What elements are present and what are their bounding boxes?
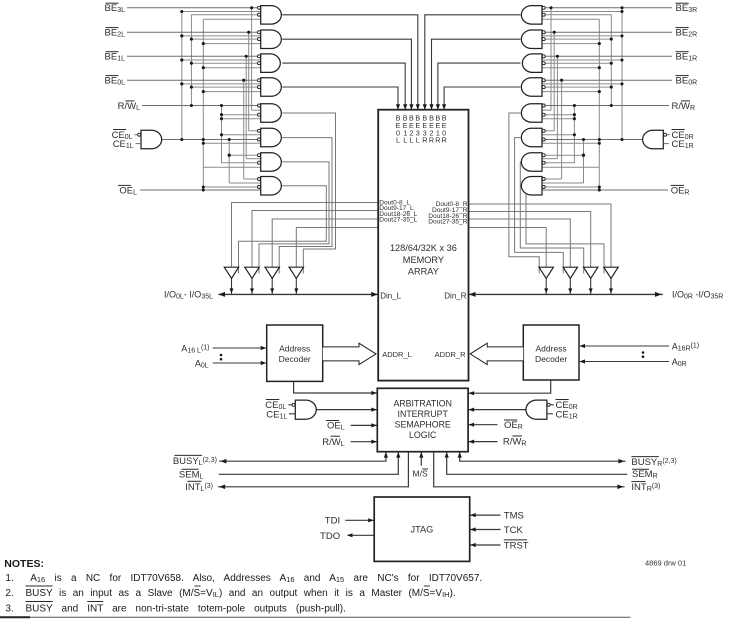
svg-text:L: L bbox=[396, 135, 400, 144]
svg-text:Dout27-35_R: Dout27-35_R bbox=[428, 219, 467, 226]
svg-text:TMS: TMS bbox=[504, 511, 524, 522]
svg-text:MEMORY: MEMORY bbox=[403, 255, 444, 265]
svg-text:Address: Address bbox=[279, 344, 310, 354]
svg-text:INTERRUPT: INTERRUPT bbox=[398, 409, 449, 419]
svg-text:Dout27-35_L: Dout27-35_L bbox=[379, 217, 417, 224]
svg-text:Decoder: Decoder bbox=[535, 354, 567, 364]
svg-text:ADDR_L: ADDR_L bbox=[382, 350, 412, 359]
svg-text:Address: Address bbox=[536, 344, 567, 354]
svg-text:Din_R: Din_R bbox=[444, 292, 466, 301]
svg-text:L: L bbox=[403, 135, 407, 144]
svg-text:128/64/32K x 36: 128/64/32K x 36 bbox=[390, 243, 457, 253]
svg-text:M/S: M/S bbox=[413, 469, 428, 479]
svg-text:L: L bbox=[416, 135, 420, 144]
svg-text:TRST: TRST bbox=[504, 541, 529, 552]
svg-text:LOGIC: LOGIC bbox=[409, 430, 437, 440]
svg-text:Din_L: Din_L bbox=[380, 292, 401, 301]
svg-text:R: R bbox=[422, 135, 427, 144]
svg-text:2.BUSY is an input as a Slave: 2.BUSY is an input as a Slave (M/S=VIL) … bbox=[5, 588, 455, 599]
svg-text:1.A16 is a NC for IDT70V658. A: 1.A16 is a NC for IDT70V658. Also, Addre… bbox=[5, 573, 482, 584]
svg-text:TCK: TCK bbox=[504, 525, 524, 536]
svg-text:R: R bbox=[441, 135, 446, 144]
svg-text:NOTES:: NOTES: bbox=[4, 558, 44, 570]
svg-text:R: R bbox=[429, 135, 434, 144]
svg-text:ADDR_R: ADDR_R bbox=[435, 350, 466, 359]
svg-text:TDI: TDI bbox=[325, 516, 340, 527]
svg-text:JTAG: JTAG bbox=[410, 524, 433, 534]
svg-text:3.BUSY and INT are non-tri-sta: 3.BUSY and INT are non-tri-state totem-p… bbox=[5, 604, 345, 615]
svg-text:R: R bbox=[435, 135, 440, 144]
svg-text:SEMAPHORE: SEMAPHORE bbox=[395, 420, 451, 430]
svg-text:4869 drw 01: 4869 drw 01 bbox=[645, 559, 686, 568]
svg-text:L: L bbox=[409, 135, 413, 144]
svg-text:TDO: TDO bbox=[320, 531, 340, 542]
svg-text:ARRAY: ARRAY bbox=[408, 267, 439, 277]
svg-text:Decoder: Decoder bbox=[279, 354, 311, 364]
svg-text:ARBITRATION: ARBITRATION bbox=[393, 399, 452, 409]
